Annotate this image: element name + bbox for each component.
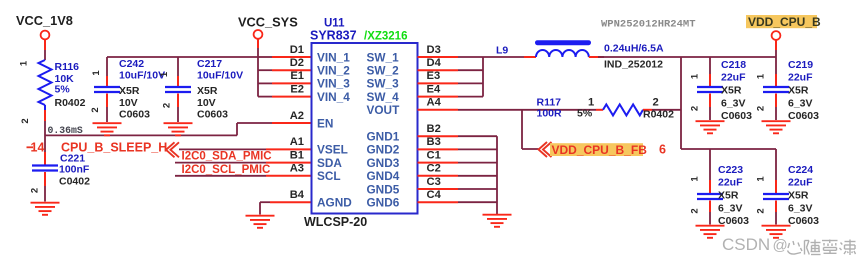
svg-text:1: 1 bbox=[588, 96, 594, 108]
svg-text:CPU_B_SLEEP_H: CPU_B_SLEEP_H bbox=[61, 140, 167, 154]
svg-text:E1: E1 bbox=[290, 70, 304, 82]
svg-text:10uF/10V: 10uF/10V bbox=[197, 70, 243, 82]
svg-text:2: 2 bbox=[690, 208, 701, 213]
svg-text:/XZ3216: /XZ3216 bbox=[364, 31, 407, 43]
svg-text:2: 2 bbox=[20, 118, 31, 123]
svg-text:AGND: AGND bbox=[317, 196, 352, 210]
svg-text:VIN_1: VIN_1 bbox=[317, 50, 350, 64]
svg-text:VIN_2: VIN_2 bbox=[317, 64, 350, 78]
svg-text:VSEL: VSEL bbox=[317, 143, 348, 157]
svg-text:GND5: GND5 bbox=[367, 182, 400, 196]
svg-text:X5R: X5R bbox=[718, 190, 739, 202]
svg-text:10V: 10V bbox=[119, 97, 138, 109]
svg-text:VCC_1V8: VCC_1V8 bbox=[16, 13, 73, 28]
svg-text:C1: C1 bbox=[427, 149, 441, 161]
svg-text:2: 2 bbox=[756, 208, 767, 213]
svg-text:6_3V: 6_3V bbox=[788, 98, 813, 110]
svg-text:22uF: 22uF bbox=[721, 72, 746, 84]
svg-text:SW_2: SW_2 bbox=[367, 64, 400, 78]
svg-text:C4: C4 bbox=[427, 189, 442, 201]
svg-text:R0402: R0402 bbox=[55, 97, 86, 109]
svg-text:GND3: GND3 bbox=[367, 156, 400, 170]
svg-text:GND4: GND4 bbox=[367, 169, 400, 183]
svg-text:X5R: X5R bbox=[721, 85, 742, 97]
svg-text:VDD_CPU_B: VDD_CPU_B bbox=[748, 15, 821, 29]
svg-text:A3: A3 bbox=[290, 163, 304, 175]
svg-text:X5R: X5R bbox=[119, 85, 140, 97]
svg-text:B1: B1 bbox=[290, 149, 304, 161]
svg-text:C218: C218 bbox=[721, 59, 746, 71]
svg-text:D1: D1 bbox=[290, 44, 304, 56]
svg-text:CSDN: CSDN bbox=[722, 235, 770, 254]
svg-text:10V: 10V bbox=[197, 97, 216, 109]
svg-text:2: 2 bbox=[90, 107, 101, 112]
svg-text:22uF: 22uF bbox=[718, 177, 743, 189]
svg-text:1: 1 bbox=[690, 73, 701, 79]
svg-text:22uF: 22uF bbox=[788, 177, 813, 189]
svg-text:SYR837: SYR837 bbox=[310, 29, 357, 43]
svg-text:2: 2 bbox=[690, 106, 701, 111]
svg-text:X5R: X5R bbox=[788, 85, 809, 97]
svg-text:VIN_4: VIN_4 bbox=[317, 90, 350, 104]
svg-text:22uF: 22uF bbox=[788, 72, 813, 84]
svg-text:WPN252012HR24MT: WPN252012HR24MT bbox=[601, 19, 696, 31]
svg-text:IND_252012: IND_252012 bbox=[604, 59, 663, 71]
svg-text:0.24uH/6.5A: 0.24uH/6.5A bbox=[604, 43, 664, 55]
svg-text:6_3V: 6_3V bbox=[721, 98, 746, 110]
svg-text:I2C0_SDA_PMIC: I2C0_SDA_PMIC bbox=[182, 151, 272, 163]
svg-text:C0603: C0603 bbox=[119, 109, 150, 121]
svg-text:6: 6 bbox=[659, 143, 666, 157]
svg-text:X5R: X5R bbox=[197, 85, 218, 97]
svg-text:WLCSP-20: WLCSP-20 bbox=[304, 215, 367, 229]
svg-text:SDA: SDA bbox=[317, 156, 342, 170]
svg-text:E3: E3 bbox=[427, 70, 441, 82]
svg-text:GND2: GND2 bbox=[367, 143, 400, 157]
svg-text:E4: E4 bbox=[427, 83, 441, 95]
svg-text:C223: C223 bbox=[718, 164, 743, 176]
svg-text:14: 14 bbox=[31, 140, 45, 154]
svg-text:2: 2 bbox=[30, 188, 41, 193]
svg-text:A2: A2 bbox=[290, 110, 304, 122]
svg-text:B3: B3 bbox=[427, 136, 441, 148]
svg-text:1: 1 bbox=[91, 70, 102, 76]
svg-text:5%: 5% bbox=[577, 108, 593, 120]
svg-text:C0402: C0402 bbox=[59, 176, 90, 188]
svg-text:VCC_SYS: VCC_SYS bbox=[238, 15, 298, 30]
svg-text:1: 1 bbox=[19, 60, 30, 66]
svg-text:VDD_CPU_B_FB: VDD_CPU_B_FB bbox=[552, 143, 648, 157]
svg-text:X5R: X5R bbox=[788, 190, 809, 202]
svg-text:100R: 100R bbox=[537, 108, 563, 120]
svg-text:L9: L9 bbox=[496, 45, 508, 57]
svg-text:C2: C2 bbox=[427, 163, 441, 175]
svg-text:VIN_3: VIN_3 bbox=[317, 77, 350, 91]
svg-text:D4: D4 bbox=[427, 57, 442, 69]
svg-text:GND6: GND6 bbox=[367, 196, 400, 210]
svg-text:2: 2 bbox=[653, 96, 659, 108]
svg-text:SCL: SCL bbox=[317, 169, 341, 183]
svg-text:C217: C217 bbox=[197, 58, 222, 70]
svg-text:C242: C242 bbox=[119, 58, 144, 70]
svg-text:1: 1 bbox=[159, 71, 170, 77]
svg-text:100nF: 100nF bbox=[59, 164, 90, 176]
svg-text:GND1: GND1 bbox=[367, 130, 400, 144]
svg-text:A1: A1 bbox=[290, 136, 304, 148]
svg-text:1: 1 bbox=[690, 176, 701, 182]
svg-text:D2: D2 bbox=[290, 57, 304, 69]
svg-text:C0603: C0603 bbox=[721, 110, 752, 122]
svg-text:6_3V: 6_3V bbox=[718, 203, 743, 215]
svg-text:D3: D3 bbox=[427, 44, 441, 56]
svg-text:C3: C3 bbox=[427, 176, 441, 188]
svg-text:@: @ bbox=[773, 237, 788, 254]
svg-text:R0402: R0402 bbox=[643, 109, 674, 121]
svg-text:6_3V: 6_3V bbox=[788, 203, 813, 215]
svg-text:B2: B2 bbox=[427, 123, 441, 135]
svg-text:2: 2 bbox=[162, 103, 173, 108]
svg-text:C224: C224 bbox=[788, 164, 813, 176]
svg-text:SW_3: SW_3 bbox=[367, 77, 400, 91]
svg-text:1: 1 bbox=[756, 73, 767, 79]
svg-text:C219: C219 bbox=[788, 59, 813, 71]
svg-text:5%: 5% bbox=[55, 84, 71, 96]
svg-text:C0603: C0603 bbox=[788, 110, 819, 122]
svg-text:C0603: C0603 bbox=[788, 215, 819, 227]
svg-text:I2C0_SCL_PMIC: I2C0_SCL_PMIC bbox=[182, 164, 271, 176]
svg-text:B4: B4 bbox=[290, 189, 305, 201]
svg-text:SW_4: SW_4 bbox=[367, 90, 400, 104]
svg-text:R116: R116 bbox=[55, 61, 80, 73]
svg-text:C0603: C0603 bbox=[197, 109, 228, 121]
svg-text:2: 2 bbox=[756, 106, 767, 111]
svg-text:EN: EN bbox=[317, 116, 333, 130]
svg-text:1: 1 bbox=[756, 176, 767, 182]
svg-text:0.36mS: 0.36mS bbox=[48, 125, 83, 136]
svg-text:VOUT: VOUT bbox=[367, 103, 401, 117]
svg-text:E2: E2 bbox=[290, 83, 304, 95]
svg-text:A4: A4 bbox=[427, 97, 442, 109]
svg-text:C0603: C0603 bbox=[718, 215, 749, 227]
svg-text:SW_1: SW_1 bbox=[367, 50, 400, 64]
